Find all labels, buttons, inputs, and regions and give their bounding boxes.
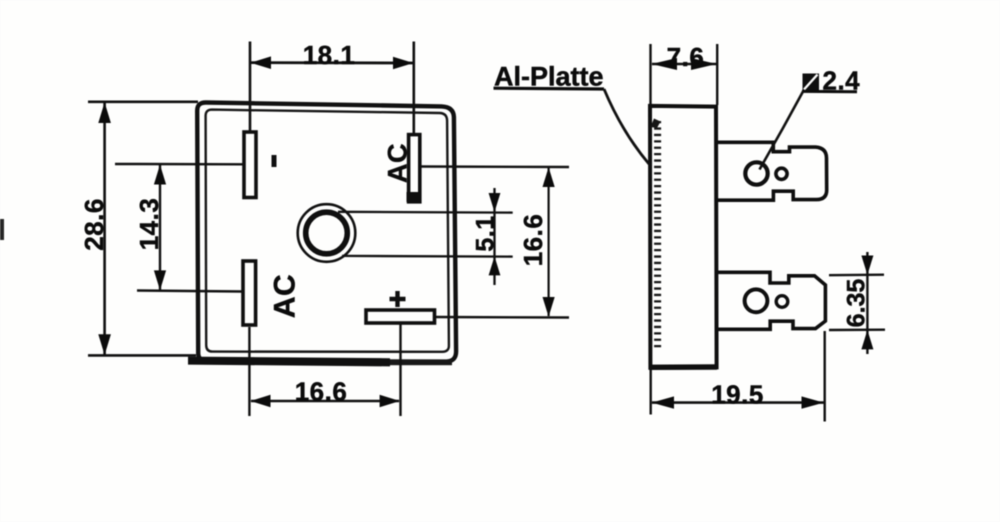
arrow down (above)	[861, 256, 873, 275]
body inner outline	[206, 110, 449, 352]
ext line right	[399, 324, 401, 416]
arrow down	[98, 334, 111, 355]
arrow down to top tangent	[489, 193, 501, 212]
ext line left	[248, 327, 250, 416]
ext line bottom (from plus bar)	[436, 316, 569, 319]
ext line right	[412, 42, 415, 135]
ext line top	[88, 101, 198, 104]
leader curve to plate	[604, 89, 649, 164]
ext line bottom	[88, 354, 196, 357]
svg-text:19.5: 19.5	[711, 380, 764, 410]
svg-text:16.6: 16.6	[295, 377, 348, 407]
terminal bar plus (bottom-right)	[366, 310, 435, 323]
dim line	[547, 168, 549, 316]
arrow left	[250, 395, 270, 407]
ext line left	[649, 44, 651, 104]
arrow up	[543, 167, 555, 187]
terminal bar AC (top-right)	[409, 135, 420, 202]
bottom tab hole	[745, 289, 768, 312]
bottom solder tab outline	[716, 272, 825, 329]
dim line vertical	[493, 188, 495, 285]
dim line	[103, 103, 106, 355]
arrow up to bottom tangent	[489, 256, 501, 275]
dim line	[652, 401, 824, 404]
dim line	[251, 400, 399, 403]
bottom edge ink smear	[188, 357, 390, 367]
arrow up	[154, 165, 166, 185]
arrow left	[652, 58, 678, 70]
ext line bottom	[829, 329, 885, 332]
ext line bottom	[137, 291, 242, 292]
svg-text:16.6: 16.6	[518, 214, 548, 267]
ext line right	[824, 331, 826, 422]
line from minus bar to left (14.3 upper ref) is ext top above; short line from bar	[115, 163, 137, 165]
top tab small hole	[776, 168, 787, 179]
svg-text:AC: AC	[269, 274, 302, 318]
svg-text:14.3: 14.3	[134, 198, 164, 251]
arrow right	[380, 395, 400, 407]
underline	[494, 87, 605, 91]
arrow left	[652, 396, 674, 408]
terminal bar minus (top-left)	[244, 132, 256, 198]
top tab hole 2.4	[745, 162, 767, 184]
ext line left	[249, 42, 252, 132]
svg-text:AC: AC	[383, 143, 413, 183]
arrow right	[691, 58, 717, 70]
plus sign label	[390, 291, 406, 307]
svg-text:5.1: 5.1	[472, 215, 500, 251]
tangent line bottom	[342, 255, 513, 258]
arrow right	[802, 396, 824, 408]
body outer outline	[197, 102, 456, 361]
ext line top	[137, 163, 243, 166]
o-slash blob	[803, 74, 820, 92]
ext line left	[650, 369, 652, 415]
arrow down	[543, 297, 555, 317]
minus sign label	[272, 155, 277, 167]
arrow right	[393, 57, 413, 70]
bottom tab small hole	[776, 296, 788, 308]
side body rectangle	[650, 106, 717, 368]
dim line	[159, 165, 161, 290]
dim line	[866, 252, 868, 354]
arrow left	[251, 56, 272, 69]
tangent line top	[338, 211, 513, 214]
underline	[802, 90, 857, 93]
svg-text:6.35: 6.35	[843, 279, 871, 328]
terminal bar AC (bottom-left)	[243, 261, 256, 325]
svg-text:28.6: 28.6	[79, 198, 109, 251]
ext line top (from AC bar)	[421, 165, 569, 168]
svg-text:18.1: 18.1	[303, 40, 356, 70]
top solder tab outline	[716, 142, 827, 200]
dim line	[652, 63, 716, 66]
ext line right	[716, 44, 718, 105]
arrow down	[154, 270, 166, 290]
scan artifact left edge	[0, 219, 4, 240]
plate line top hook	[651, 119, 661, 129]
arrow up	[98, 102, 111, 123]
Al plate dashed boundary	[654, 121, 661, 349]
ext line top	[829, 274, 884, 277]
dim line	[251, 61, 413, 64]
mounting hole inner circle	[306, 212, 348, 254]
svg-text:7.6: 7.6	[667, 42, 705, 72]
leader to hole	[760, 92, 804, 170]
arrow up (below)	[861, 330, 873, 349]
mounting hole outer circle	[298, 204, 356, 262]
